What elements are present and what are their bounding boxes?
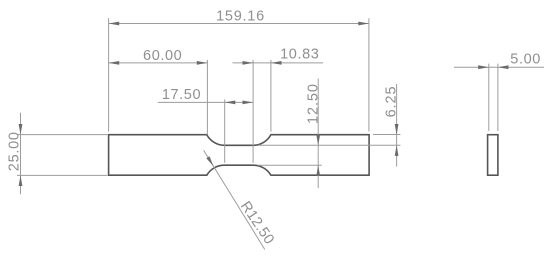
extension line right (10.83, fillet end)	[270, 60, 272, 132]
svg-text:5.00: 5.00	[510, 51, 541, 67]
extension line right (5.00, side view)	[497, 64, 499, 131]
arrow R12.50	[206, 156, 213, 166]
extension line gauge bottom (12.50)	[258, 164, 322, 166]
arrow 12.50 bottom	[316, 165, 320, 176]
svg-text:6.25: 6.25	[383, 86, 399, 118]
arrow 25.00 bottom	[19, 175, 23, 186]
dimension line 60.00	[109, 62, 208, 64]
arrow 17.50 right	[243, 101, 254, 105]
extension line left (159.16 / 60.00)	[108, 18, 110, 131]
extension line top edge (6.25)	[373, 134, 400, 136]
dimension line 6.25	[396, 84, 398, 167]
dimension line 159.16	[109, 23, 369, 25]
arrow 6.25 bottom	[395, 145, 399, 156]
dimension line 25.00	[20, 113, 22, 194]
arrow 60.00 right	[197, 61, 208, 65]
svg-text:10.83: 10.83	[280, 47, 319, 63]
svg-text:60.00: 60.00	[143, 48, 182, 64]
extension line right (60.00)	[206, 60, 208, 134]
svg-text:12.50: 12.50	[306, 83, 322, 124]
svg-text:159.16: 159.16	[216, 8, 265, 24]
arrow 17.50 left	[225, 101, 236, 105]
side view rectangle	[488, 135, 498, 176]
extension line gauge top (12.50 / 6.25 shared)	[258, 144, 400, 146]
svg-text:25.00: 25.00	[7, 131, 23, 171]
dimension line 12.50	[317, 79, 319, 189]
arrow 6.25 top	[395, 124, 399, 135]
extension line left (5.00, side view)	[488, 64, 490, 131]
arrow 60.00 left	[109, 61, 120, 65]
extension line left (10.83 / 17.50 shared, gauge end)	[252, 60, 254, 163]
part outline (dog-bone tensile specimen, front view)	[109, 135, 370, 176]
arrow 12.50 top	[316, 135, 320, 146]
arrow 25.00 top	[19, 124, 23, 135]
arrow 10.83 right	[271, 61, 282, 65]
arrow 5.00 left	[478, 65, 489, 69]
extension line left (17.50, gauge start)	[224, 99, 226, 162]
arrow 5.00 right	[498, 65, 509, 69]
extension line top (25.00)	[17, 134, 107, 136]
svg-text:17.50: 17.50	[162, 87, 201, 103]
dimension line 17.50	[158, 101, 253, 103]
extension line right (159.16)	[368, 18, 370, 131]
dimension line 5.00	[454, 66, 544, 68]
leader line R12.50	[204, 150, 265, 249]
dimension line 10.83	[233, 62, 324, 64]
arrow 159.16 left	[109, 22, 120, 26]
extension line bottom (25.00)	[17, 174, 107, 176]
arrow 159.16 right	[358, 22, 369, 26]
arrow 10.83 left	[243, 61, 254, 65]
